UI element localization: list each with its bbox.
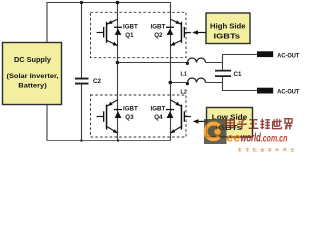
wire L1 to output node <box>206 62 223 64</box>
watermark url eeworld.com.cn <box>227 131 288 145</box>
wire left bridge leg <box>117 2 119 141</box>
label box High Side IGBTs <box>206 13 250 44</box>
diode D1 (antiparallel on Q1) <box>114 27 122 35</box>
dashed enclosure high-side IGBT pair <box>91 12 187 57</box>
wire L2 to output node <box>206 82 223 84</box>
svg-text:Q2: Q2 <box>154 32 163 39</box>
svg-text:L2: L2 <box>181 89 188 95</box>
capacitor C1 <box>215 70 231 77</box>
inductor L2 <box>188 78 206 83</box>
svg-text:Battery): Battery) <box>18 82 47 89</box>
terminal AC-OUT top <box>257 51 273 57</box>
arrow from Low Side label to bridge <box>193 119 207 124</box>
capacitor C2 <box>75 78 89 85</box>
transistor Q1 (IGBT, top-left) <box>97 19 119 46</box>
node right leg midpoint <box>169 81 173 85</box>
wire top rail <box>47 3 171 43</box>
node bottom rail / C2 <box>80 139 83 142</box>
node L2 input <box>186 82 189 85</box>
node junction top rail / left leg <box>116 1 120 5</box>
node left leg midpoint <box>116 61 120 65</box>
svg-text:C2: C2 <box>93 78 101 85</box>
transistor Q3 (IGBT, bottom-left) <box>97 100 119 134</box>
arrow from High Side label to bridge <box>192 30 206 35</box>
transistor Q4 (IGBT, bottom-right, mirrored) <box>170 100 191 134</box>
dashed enclosure low-side IGBT pair <box>91 95 187 137</box>
wire output vertical upper <box>223 55 258 70</box>
wire bottom rail <box>47 140 171 142</box>
diode D4 (antiparallel on Q4) <box>166 109 174 118</box>
svg-text:Q1: Q1 <box>125 32 134 39</box>
diode D3 (antiparallel on Q3) <box>114 109 122 118</box>
svg-text:IGBT: IGBT <box>123 24 138 31</box>
wire DC supply bottom lead <box>46 104 48 141</box>
node L1 input <box>186 62 189 65</box>
svg-text:ee: ee <box>227 131 241 145</box>
transistor Q2 (IGBT, top-right, mirrored) <box>170 19 191 46</box>
wire output vertical lower <box>223 77 258 91</box>
node bottom rail / left leg <box>117 139 120 142</box>
svg-text:IGBT: IGBT <box>123 106 138 113</box>
wire C2 branch lower <box>81 85 83 141</box>
svg-text:(Solar Inverter,: (Solar Inverter, <box>7 73 59 80</box>
svg-text:Q3: Q3 <box>125 114 134 121</box>
wire right bridge leg <box>170 2 172 141</box>
svg-text:AC-OUT: AC-OUT <box>277 89 299 96</box>
svg-text:AC-OUT: AC-OUT <box>277 52 299 59</box>
watermark site name (stylized CJK glyphs) <box>226 118 292 130</box>
svg-text:Q4: Q4 <box>154 114 163 121</box>
svg-text:.com.cn: .com.cn <box>261 134 288 145</box>
wire C2 branch upper <box>81 2 83 78</box>
svg-text:IGBTs: IGBTs <box>214 32 241 41</box>
svg-text:DC Supply: DC Supply <box>14 57 51 64</box>
terminal AC-OUT bottom <box>257 88 273 94</box>
svg-text:IGBT: IGBT <box>151 24 166 31</box>
svg-text:C1: C1 <box>234 71 242 78</box>
inductor L1 <box>188 58 206 63</box>
label box Low Side IGBTs <box>207 108 253 138</box>
watermark slogan marks <box>238 148 294 151</box>
wire phase A (left midpoint to L1) <box>118 62 188 64</box>
wire phase B (right midpoint to L2) <box>170 82 188 84</box>
svg-text:IGBT: IGBT <box>151 106 166 113</box>
diode D2 (antiparallel on Q2) <box>166 27 174 35</box>
svg-text:L1: L1 <box>181 72 188 78</box>
DC supply source block <box>3 43 62 105</box>
svg-text:High Side: High Side <box>210 21 246 30</box>
svg-text:world: world <box>240 131 261 145</box>
node junction top rail / C2 <box>80 1 83 4</box>
watermark logo square <box>204 119 227 144</box>
